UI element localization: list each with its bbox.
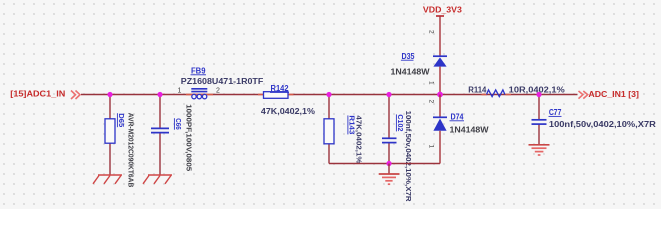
node junction at D65 — [107, 92, 112, 97]
svg-text:C102: C102 — [396, 114, 405, 131]
svg-text:R142: R142 — [271, 84, 290, 93]
label C102 refdes — [396, 114, 405, 131]
svg-text:R114: R114 — [468, 85, 487, 94]
node junction diodes — [437, 92, 443, 98]
svg-text:2: 2 — [428, 100, 435, 104]
resistor R143 — [324, 119, 334, 144]
pin 1 D35 (rotated) — [428, 81, 435, 85]
svg-text:1: 1 — [178, 88, 182, 95]
node junction at C77 — [536, 92, 541, 97]
input port chevron — [71, 91, 80, 100]
resistor R114 (zigzag) — [487, 90, 505, 97]
svg-text:AVR-M2012C090KT6AB: AVR-M2012C090KT6AB — [127, 113, 136, 188]
wire main horizontal net — [81, 94, 578, 96]
svg-text:2: 2 — [216, 88, 220, 95]
node junction at C66 — [157, 92, 162, 97]
label R143 refdes — [348, 115, 357, 134]
svg-text:47K,0402,1%: 47K,0402,1% — [355, 115, 364, 164]
svg-text:VDD_3V3: VDD_3V3 — [423, 5, 462, 15]
ground earth under C102 — [388, 164, 390, 174]
resistor R142 — [264, 92, 289, 99]
svg-text:PZ1608U471-1R0TF: PZ1608U471-1R0TF — [181, 77, 264, 86]
svg-text:1N4148W: 1N4148W — [450, 125, 489, 134]
svg-text:D65: D65 — [117, 113, 126, 127]
label D65 value AVR-M2012C090KT6AB — [127, 113, 136, 188]
label R143 value 47K,0402,1% — [355, 115, 364, 164]
svg-text:10R,0402,1%: 10R,0402,1% — [509, 85, 565, 94]
pin 1 D74 (rotated) — [428, 145, 435, 149]
diode D74 — [433, 116, 447, 118]
svg-text:1: 1 — [428, 81, 435, 85]
pin 2 D74 (rotated) — [428, 100, 435, 104]
node junction at R143 top — [326, 92, 331, 97]
svg-text:D35: D35 — [402, 52, 415, 61]
capacitor C102 — [382, 138, 397, 142]
svg-text:ADC_IN1 [3]: ADC_IN1 [3] — [588, 89, 639, 99]
svg-text:1N4148W: 1N4148W — [391, 67, 430, 76]
ground chassis under C66 — [143, 175, 172, 184]
wire pin stubs (lighter) — [186, 94, 511, 96]
svg-text:C66: C66 — [174, 118, 183, 130]
wire C66 branch vertical — [159, 95, 161, 176]
label C102 value 100nf,50v,0402,10%,X7R — [404, 111, 413, 203]
wire C102 branch vertical — [388, 95, 390, 164]
wire bottom rail — [329, 163, 440, 165]
output port chevron — [579, 91, 588, 99]
capacitor C66 — [151, 128, 169, 132]
capacitor C77 — [532, 120, 547, 124]
pin 2 D35 (rotated) — [428, 30, 435, 34]
wire net to D74 cathode — [439, 95, 441, 118]
svg-text:2: 2 — [428, 30, 435, 34]
wire D35 anode to net — [439, 67, 441, 95]
svg-text:C77: C77 — [549, 108, 562, 117]
node junction at C102 top — [386, 92, 391, 97]
wire D65 branch vertical — [109, 95, 111, 176]
label C66 value 1000PF,100V,0805 — [185, 104, 194, 171]
wire R143 branch vertical — [328, 95, 330, 164]
svg-text:1000PF,100V,0805: 1000PF,100V,0805 — [185, 104, 194, 171]
diode D35 — [433, 55, 447, 57]
wire C77 branch vertical — [538, 95, 540, 145]
svg-text:100nf,50v,0402,10%,X7R: 100nf,50v,0402,10%,X7R — [404, 111, 413, 203]
label D65 refdes — [117, 113, 126, 127]
ferrite bead FB9 — [191, 89, 207, 92]
svg-text:[15]ADC1_IN: [15]ADC1_IN — [10, 88, 65, 98]
ground earth under C77 — [529, 145, 550, 155]
label C66 refdes — [174, 118, 183, 130]
svg-text:47K,0402,1%: 47K,0402,1% — [261, 107, 315, 116]
svg-text:D74: D74 — [451, 112, 464, 121]
wire D74 anode to rail — [439, 131, 441, 164]
node junction rail-C102 — [386, 161, 391, 166]
svg-text:FB9: FB9 — [191, 66, 206, 75]
varistor D65 — [105, 119, 115, 143]
svg-text:1: 1 — [428, 145, 435, 149]
wire VDD to D35 — [439, 16, 441, 56]
ground chassis under D65 — [93, 175, 122, 184]
svg-text:100nf,50v,0402,10%,X7R: 100nf,50v,0402,10%,X7R — [549, 120, 656, 129]
